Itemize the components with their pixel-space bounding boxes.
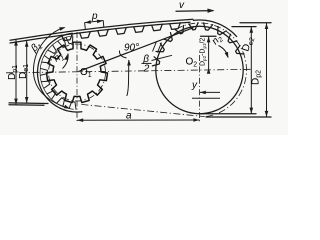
svg-text:2: 2: [143, 64, 150, 75]
svg-text:p: p: [91, 11, 98, 22]
svg-text:90°: 90°: [124, 43, 139, 54]
svg-text:Dp2-Dp1/2: Dp2-Dp1/2: [200, 38, 208, 66]
svg-text:y: y: [191, 80, 198, 91]
svg-text:a: a: [126, 111, 132, 122]
